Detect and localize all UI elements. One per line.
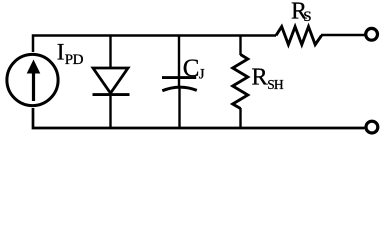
diode cathode bar [93,93,130,96]
capacitor CJ [162,35,197,130]
label RS [291,0,312,25]
svg-text:PD: PD [65,52,84,68]
Rsh zigzag [233,55,248,109]
terminal top right [366,28,378,40]
terminal bottom right [366,121,378,133]
resistor RSH [233,35,248,130]
wire: bottom bus [33,108,365,128]
capacitor top plate [162,76,196,79]
Rs zigzag [276,27,322,45]
wire: Rsh bottom stub [239,108,241,129]
label RSH [251,63,284,92]
wire: top bus from current source to Rs [33,36,276,53]
svg-text:SH: SH [267,77,284,92]
svg-text:R: R [251,63,268,90]
svg-text:I: I [57,39,65,64]
svg-text:C: C [183,55,200,82]
diode triangle [93,68,128,93]
wire: Rs to terminal [321,34,365,37]
wire: diode bottom [109,95,111,129]
wire: Rsh top stub [239,35,241,56]
svg-text:S: S [303,9,311,25]
label CJ [183,55,205,82]
diode D [93,35,130,130]
current source IPD [7,54,58,105]
wire: capacitor bottom [178,88,180,129]
svg-text:J: J [199,66,205,82]
resistor RS [276,27,365,45]
label IPD [57,39,84,68]
capacitor curved plate [162,87,197,91]
wire: diode top [109,35,111,69]
wire: capacitor top [178,35,180,88]
